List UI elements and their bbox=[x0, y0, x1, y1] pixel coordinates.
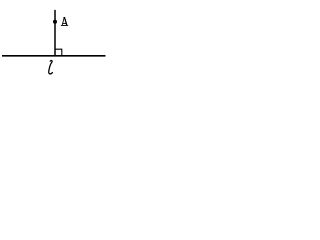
label A bbox=[61, 17, 68, 25]
node A dot bbox=[53, 20, 57, 24]
wire: vertical perpendicular line through A bbox=[54, 10, 56, 57]
label l bbox=[49, 60, 53, 73]
right-angle marker bbox=[55, 49, 62, 56]
wire: horizontal line l bbox=[2, 55, 106, 57]
